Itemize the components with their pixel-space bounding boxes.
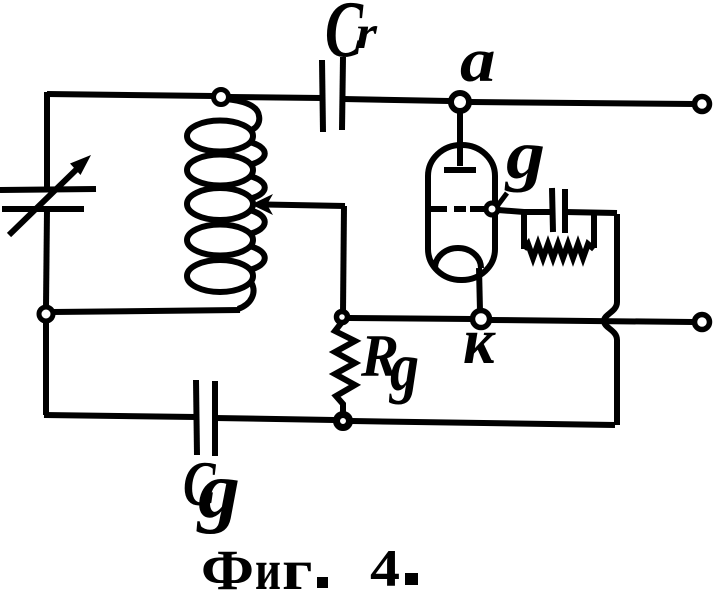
svg-text:4: 4 <box>370 540 400 594</box>
svg-text:a: a <box>460 27 496 95</box>
svg-text:r: r <box>356 7 378 59</box>
svg-text:g: g <box>196 447 240 535</box>
svg-text:к: к <box>463 305 496 378</box>
svg-text:и: и <box>255 539 281 594</box>
svg-text:g: g <box>388 329 419 405</box>
svg-text:г: г <box>282 539 313 594</box>
svg-text:g: g <box>504 117 545 193</box>
svg-text:Ф: Ф <box>201 539 254 594</box>
